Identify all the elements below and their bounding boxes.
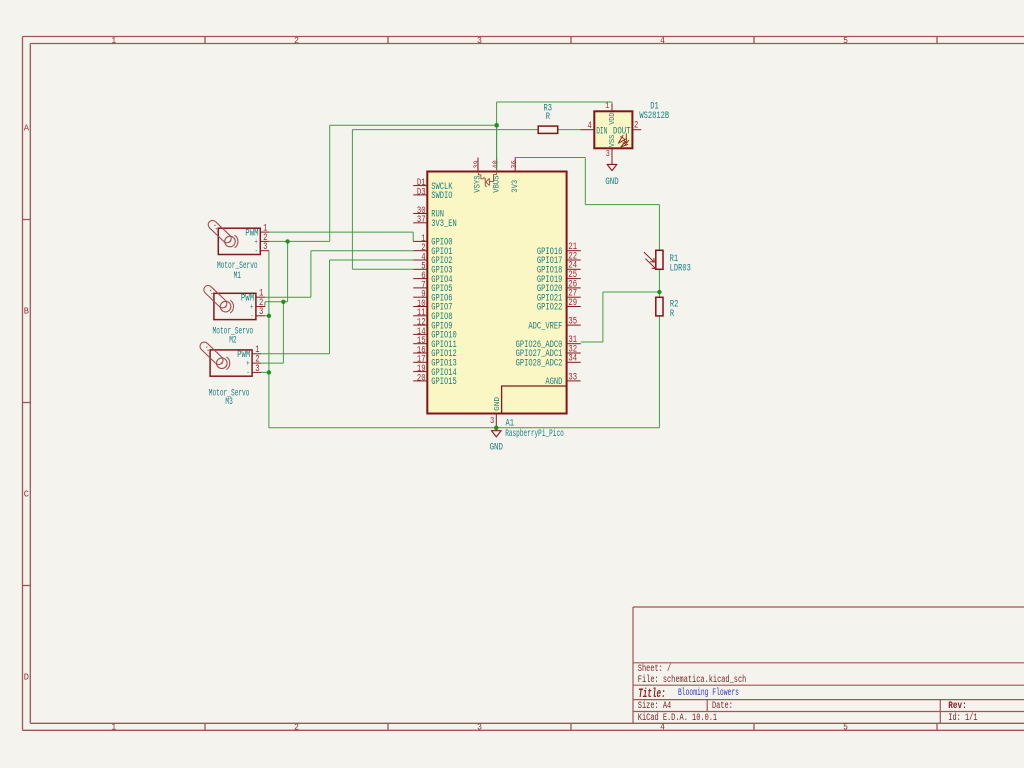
pin 19 GPIO14 of A1 [413, 371, 427, 373]
pin 1 PWM of M1 [260, 231, 269, 233]
svg-text:C: C [24, 489, 30, 500]
svg-text:3V3: 3V3 [511, 180, 520, 193]
junction GND pin redraw [494, 426, 498, 430]
wire M3 PWM vertical up [329, 260, 331, 354]
svg-text:M1: M1 [234, 270, 241, 282]
svg-text:GND: GND [605, 176, 618, 188]
ground symbol at D1 VSS [611, 156, 613, 165]
pin 31 GPIO26_ADC0 of A1 [567, 343, 581, 345]
svg-text:Date:: Date: [712, 700, 733, 711]
svg-text:A: A [24, 123, 30, 134]
wire M2 pin2 step vertical [264, 302, 266, 307]
pin 26 GPIO20 of A1 [567, 287, 581, 289]
pin 29 GPIO22 of A1 [567, 306, 581, 308]
wire M1 PWM to GPIO0 vertical jog [412, 232, 414, 241]
svg-text:LDR03: LDR03 [670, 263, 691, 275]
pin 1 GPIO0 of A1 [413, 240, 427, 242]
svg-text:R: R [546, 111, 550, 123]
pin 12 GPIO9 of A1 [413, 324, 427, 326]
svg-text:ADC_VREF: ADC_VREF [528, 320, 562, 332]
pin 4 DIN of D1 [580, 129, 594, 131]
pin 24 GPIO18 of A1 [567, 268, 581, 270]
pin 7 GPIO5 of A1 [413, 287, 427, 289]
wire VDD-net vertical above VBUS junction [496, 102, 498, 125]
wire ADC tap horizontal from divider [603, 291, 660, 293]
pin 9 GPIO6 of A1 [413, 296, 427, 298]
svg-text:Id: 1/1: Id: 1/1 [948, 712, 977, 723]
wire M2 PWM to GPIO1 horizontal [311, 250, 413, 252]
svg-text:2: 2 [294, 722, 299, 733]
svg-text:35: 35 [568, 316, 577, 327]
internal AGND section boundary line of A1 [502, 386, 566, 413]
wire M2 pin2 horizontal to plus branch [265, 301, 288, 303]
pin 15 GPIO11 of A1 [413, 343, 427, 345]
pin 3 minus of M2 [256, 315, 265, 317]
motor servo M3 body [210, 350, 252, 376]
pin 30 RUN of A1 [413, 213, 427, 215]
pin 11 GPIO8 of A1 [413, 315, 427, 317]
svg-text:RaspberryPi_Pico: RaspberryPi_Pico [505, 428, 564, 440]
pin 34 GPIO28_ADC2 of A1 [567, 361, 581, 363]
wire GPIO3 horizontal to R3 left [352, 129, 538, 131]
servo M1 horn drawing [225, 236, 236, 247]
pin 40 VBUS of A1 top [496, 158, 498, 172]
svg-text:GPIO15: GPIO15 [431, 376, 457, 388]
pin 21 GPIO16 of A1 [567, 250, 581, 252]
svg-text:Rev:: Rev: [948, 700, 967, 711]
svg-text:R: R [670, 308, 674, 320]
junction M1 pin2 plus-net [285, 239, 289, 243]
title block outline [633, 607, 1024, 723]
svg-text:5: 5 [843, 35, 848, 46]
pin 36 3V3 of A1 top [514, 158, 516, 172]
svg-text:2: 2 [634, 120, 638, 131]
wire GPIO3 horizontal to R3 column [352, 268, 413, 270]
wire M2 PWM horizontal [265, 296, 311, 298]
svg-text:29: 29 [568, 297, 577, 308]
junction VBUS redraw [494, 123, 498, 127]
pin 1 PWM of M2 [256, 296, 265, 298]
svg-text:GND: GND [494, 396, 502, 411]
svg-text:37: 37 [417, 214, 426, 225]
pin 2 plus of M3 [252, 362, 261, 364]
ic U A1 RaspberryPi_Pico body [427, 172, 566, 414]
pin 10 GPIO7 of A1 [413, 306, 427, 308]
wire 3V3 vertical jog [584, 158, 586, 205]
pin 1 PWM of M3 [252, 353, 261, 355]
wire M3 PWM horizontal [261, 353, 329, 355]
LED arrows icon inside D1 [624, 134, 629, 144]
svg-text:File: schematica.kicad_sch: File: schematica.kicad_sch [638, 674, 747, 685]
wire plus-net horizontal to VBUS [330, 124, 497, 126]
pin 14 GPIO10 of A1 [413, 333, 427, 335]
svg-text:4: 4 [587, 120, 591, 131]
wire M1 PWM to GPIO0 horizontal [269, 231, 413, 233]
pin 3 VSS of D1 [611, 148, 613, 156]
svg-text:-: - [250, 311, 253, 321]
wire ADC tap vertical [602, 292, 604, 342]
wire M3 pin3 stub to minus vertical [261, 371, 269, 373]
internal diode between VSYS and VBUS of A1 [478, 172, 483, 179]
wire VBUS vertical drop [496, 125, 498, 171]
wire M3 PWM to GPIO2 horizontal [330, 259, 414, 261]
motor servo M1 body [218, 228, 260, 254]
wire VDD-net horizontal to D1 pin1 [497, 101, 612, 103]
svg-text:GPIO28_ADC2: GPIO28_ADC2 [516, 358, 563, 370]
svg-text:20: 20 [417, 372, 426, 383]
svg-text:Blooming Flowers: Blooming Flowers [678, 687, 739, 698]
junction M2 pin3 minus-net [267, 314, 271, 318]
wire GPIO3 vertical up [351, 130, 353, 270]
svg-text:4: 4 [660, 722, 665, 733]
pin 2 GPIO1 of A1 [413, 250, 427, 252]
pin 16 GPIO12 of A1 [413, 352, 427, 354]
pin 27 GPIO21 of A1 [567, 296, 581, 298]
pin 5 GPIO3 of A1 [413, 268, 427, 270]
pin 3 minus of M1 [260, 250, 269, 252]
wire 3V3 horizontal jog [585, 204, 659, 206]
svg-text:1: 1 [111, 722, 116, 733]
svg-text:3: 3 [263, 241, 267, 252]
wire plus-net vertical to top [329, 125, 331, 241]
svg-text:3: 3 [490, 415, 494, 426]
svg-text:M3: M3 [225, 396, 232, 408]
svg-text:33: 33 [568, 371, 577, 382]
svg-text:1: 1 [605, 100, 609, 111]
pin 33 AGND of A1 [567, 380, 581, 382]
pin 22 GPIO17 of A1 [567, 259, 581, 261]
pin 17 GPIO13 of A1 [413, 361, 427, 363]
svg-text:M2: M2 [229, 335, 236, 347]
svg-text:DIN: DIN [596, 125, 607, 137]
ground symbol at A1 GND pin [495, 428, 497, 431]
wire VDD-net stub into D1 pin1 [611, 102, 613, 104]
svg-text:-: - [247, 368, 250, 378]
junction M3 pin3 minus-net [267, 370, 271, 374]
svg-text:-: - [255, 246, 258, 256]
resistor R3 body [538, 126, 558, 133]
svg-text:D: D [24, 672, 30, 683]
svg-text:DOUT: DOUT [613, 125, 631, 137]
junction VBUS VDD plus-net [494, 123, 498, 127]
wire ADC tap to GPIO26_ADC0 pin [581, 341, 603, 343]
svg-text:D3: D3 [417, 186, 426, 197]
svg-text:KiCad E.D.A. 10.0.1: KiCad E.D.A. 10.0.1 [638, 712, 717, 723]
servo M2 horn drawing [220, 301, 231, 312]
pin 25 GPIO19 of A1 [567, 278, 581, 280]
junction M2 pin2 branch [281, 300, 285, 304]
pin 4 GPIO2 of A1 [413, 259, 427, 261]
resistor R2 body [656, 297, 663, 316]
svg-text:34: 34 [568, 353, 577, 364]
svg-text:B: B [24, 306, 30, 317]
led driver D1 WS2812B body [594, 111, 632, 148]
svg-text:GPIO22: GPIO22 [537, 302, 563, 314]
wire VBUS vertical overlay [496, 125, 498, 171]
wire R3 right to D1 DIN [558, 129, 581, 131]
svg-text:3: 3 [477, 722, 482, 733]
wire plus branch vertical from M1 pin2 junction [287, 241, 289, 301]
LDR arrows into R1 [644, 252, 654, 262]
svg-text:VDD: VDD [609, 112, 617, 125]
pin 3 GND of A1 bottom [495, 414, 497, 428]
wire 3V3 vertical down to R1 [658, 205, 660, 251]
wire minus-net vertical M1 pin3 down to GND bus [268, 251, 270, 428]
svg-text:36: 36 [511, 160, 519, 168]
svg-text:GND: GND [490, 441, 503, 453]
svg-text:2: 2 [294, 35, 299, 46]
svg-text:3V3_EN: 3V3_EN [431, 218, 457, 230]
wire 3V3 horizontal from pin top [515, 157, 585, 159]
pin 3 minus of M3 [252, 371, 261, 373]
photoresistor R1 LDR03 body [656, 250, 663, 269]
wire GND bus horizontal [269, 427, 660, 429]
pin 2 plus of M2 [256, 306, 265, 308]
servo M3 horn drawing [217, 358, 228, 369]
svg-text:3: 3 [477, 35, 482, 46]
wire R2 bottom to GND bus [658, 316, 660, 428]
wire M2 pin3 stub to minus vertical [265, 315, 269, 317]
svg-text:4: 4 [660, 35, 665, 46]
svg-text:5: 5 [843, 722, 848, 733]
wire R1 bottom to R2 top [658, 269, 660, 297]
wire plus branch vertical down to M3 pin2 row [282, 302, 284, 363]
svg-text:WS2812B: WS2812B [639, 110, 669, 122]
pin 20 GPIO15 of A1 [413, 380, 427, 382]
junction GND pin [494, 426, 498, 430]
wire M2 PWM vertical up [310, 251, 312, 298]
pin 2 DOUT of D1 [632, 129, 641, 131]
svg-text:1: 1 [111, 35, 116, 46]
pin 37 3V3_EN of A1 [413, 222, 427, 224]
svg-text:Sheet: /: Sheet: / [638, 663, 671, 674]
pin 32 GPIO27_ADC1 of A1 [567, 352, 581, 354]
svg-text:39: 39 [474, 160, 482, 168]
pin 6 GPIO4 of A1 [413, 278, 427, 280]
wire M3 pin2 horizontal [261, 362, 283, 364]
pin 2 plus of M1 [260, 240, 269, 242]
svg-text:3: 3 [606, 148, 610, 159]
wire plus-net M1 pin2 horizontal [269, 240, 330, 242]
pin D1 SWCLK of A1 [413, 185, 427, 187]
pin D3 SWDIO of A1 [413, 194, 427, 196]
motor servo M2 body [214, 293, 256, 319]
pin 1 VDD of D1 [611, 104, 613, 112]
junction R1 R2 ADC tap [657, 290, 661, 294]
svg-text:3: 3 [259, 306, 263, 317]
svg-text:SWDIO: SWDIO [431, 190, 452, 202]
pin 35 ADC_VREF of A1 [567, 324, 581, 326]
pin 39 VSYS of A1 top [477, 158, 479, 172]
svg-text:3: 3 [255, 363, 259, 374]
svg-text:Size: A4: Size: A4 [638, 700, 671, 711]
